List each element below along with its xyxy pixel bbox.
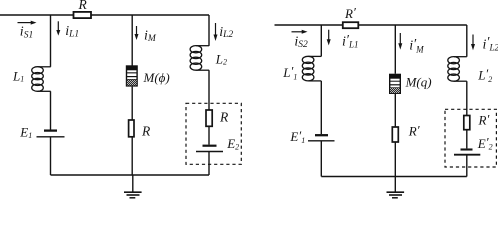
wire: R' to E'2 bbox=[466, 130, 468, 149]
wire: R' to bottom rail bbox=[394, 142, 396, 177]
battery E2 bbox=[196, 146, 223, 152]
ground (right circuit) bbox=[387, 177, 405, 198]
svg-text:iL1: iL1 bbox=[65, 24, 79, 39]
wire: L'1 to E'1 bbox=[320, 81, 322, 134]
svg-text:E′2: E′2 bbox=[477, 135, 493, 152]
wire: E'1 to bottom rail bbox=[320, 141, 322, 177]
wire: right circuit bottom rail bbox=[321, 176, 467, 178]
wire: right branch 2 vertical (top) bbox=[394, 25, 396, 74]
wire: E2 to bottom rail bbox=[208, 152, 210, 176]
current arrow i_S1 bbox=[18, 21, 37, 25]
wire: R to E2 bbox=[208, 126, 210, 144]
wire: L2 into dashed box bbox=[208, 70, 210, 110]
resistor R' (right top rail) bbox=[343, 22, 359, 28]
wire: right branch 1 vertical (top) bbox=[320, 25, 322, 56]
resistor R (left middle branch) bbox=[129, 120, 134, 137]
battery E1 bbox=[37, 131, 65, 137]
svg-text:L2: L2 bbox=[215, 52, 227, 67]
wire: M(q) to R' bbox=[394, 94, 396, 127]
dashed box (left equivalent source) bbox=[186, 103, 241, 164]
current arrow i_S2 bbox=[292, 30, 308, 34]
svg-text:R′: R′ bbox=[344, 5, 356, 21]
resistor R' (in right dashed box) bbox=[464, 116, 470, 130]
memristor M(phi) bbox=[126, 65, 138, 86]
svg-text:iS1: iS1 bbox=[20, 25, 33, 41]
dashed box (right equivalent source) bbox=[445, 109, 496, 167]
svg-text:iL2: iL2 bbox=[219, 25, 233, 40]
resistor R' (right middle branch) bbox=[392, 127, 398, 142]
wire: E'2 to bottom rail bbox=[466, 155, 468, 177]
current arrow i_L2 bbox=[214, 23, 218, 41]
svg-text:R′: R′ bbox=[408, 123, 420, 139]
current arrow i_M bbox=[135, 26, 139, 40]
svg-text:R: R bbox=[219, 110, 229, 125]
wire: left branch 3 vertical (top) bbox=[208, 15, 210, 46]
svg-text:iM: iM bbox=[144, 29, 157, 44]
wire: L1 to E1 bbox=[50, 91, 52, 129]
svg-text:i′M: i′M bbox=[409, 37, 424, 55]
wire: L'2 into dashed box bbox=[466, 81, 468, 115]
wire: left branch 1 vertical (top) bbox=[50, 15, 52, 67]
svg-text:L1: L1 bbox=[12, 69, 24, 84]
memristor M(q) bbox=[389, 74, 401, 94]
resistor R (in left dashed box) bbox=[206, 110, 212, 126]
wire: right circuit top rail bbox=[275, 24, 467, 26]
svg-text:E1: E1 bbox=[19, 125, 32, 140]
wire: R to bottom rail bbox=[131, 137, 133, 175]
svg-text:R: R bbox=[78, 0, 88, 12]
wire: M(phi) to R bbox=[131, 87, 133, 120]
current arrow i'_L1 bbox=[327, 30, 331, 46]
svg-text:E2: E2 bbox=[226, 136, 239, 151]
wire: left circuit bottom rail bbox=[51, 174, 210, 176]
svg-text:L′2: L′2 bbox=[477, 66, 492, 84]
svg-text:iS2: iS2 bbox=[294, 34, 308, 50]
current arrow i_L1 bbox=[56, 21, 60, 35]
wire: left circuit top rail bbox=[0, 14, 209, 16]
current arrow i'_M bbox=[398, 33, 402, 50]
inductor L'1 bbox=[302, 56, 321, 81]
inductor L1 bbox=[32, 67, 51, 92]
current arrow i'_L2 bbox=[471, 35, 475, 51]
svg-text:M(q): M(q) bbox=[405, 74, 432, 89]
wire: E1 to bottom rail bbox=[50, 137, 52, 175]
wire: right branch 3 vertical (top) bbox=[466, 25, 468, 57]
ground (left circuit) bbox=[124, 175, 142, 198]
svg-text:i′L2: i′L2 bbox=[483, 35, 498, 53]
svg-text:E′1: E′1 bbox=[289, 128, 305, 145]
inductor L'2 bbox=[448, 57, 467, 82]
svg-text:M(ϕ): M(ϕ) bbox=[143, 70, 170, 85]
svg-text:R: R bbox=[141, 124, 151, 139]
wire: left branch 2 vertical (top) bbox=[131, 15, 133, 66]
battery E'2 bbox=[454, 150, 480, 155]
svg-text:L′1: L′1 bbox=[282, 64, 297, 82]
svg-text:i′L1: i′L1 bbox=[342, 33, 358, 50]
resistor R (left top rail) bbox=[74, 12, 92, 18]
svg-text:R′: R′ bbox=[478, 112, 490, 128]
inductor L2 bbox=[190, 46, 209, 71]
battery E'1 bbox=[308, 135, 335, 141]
